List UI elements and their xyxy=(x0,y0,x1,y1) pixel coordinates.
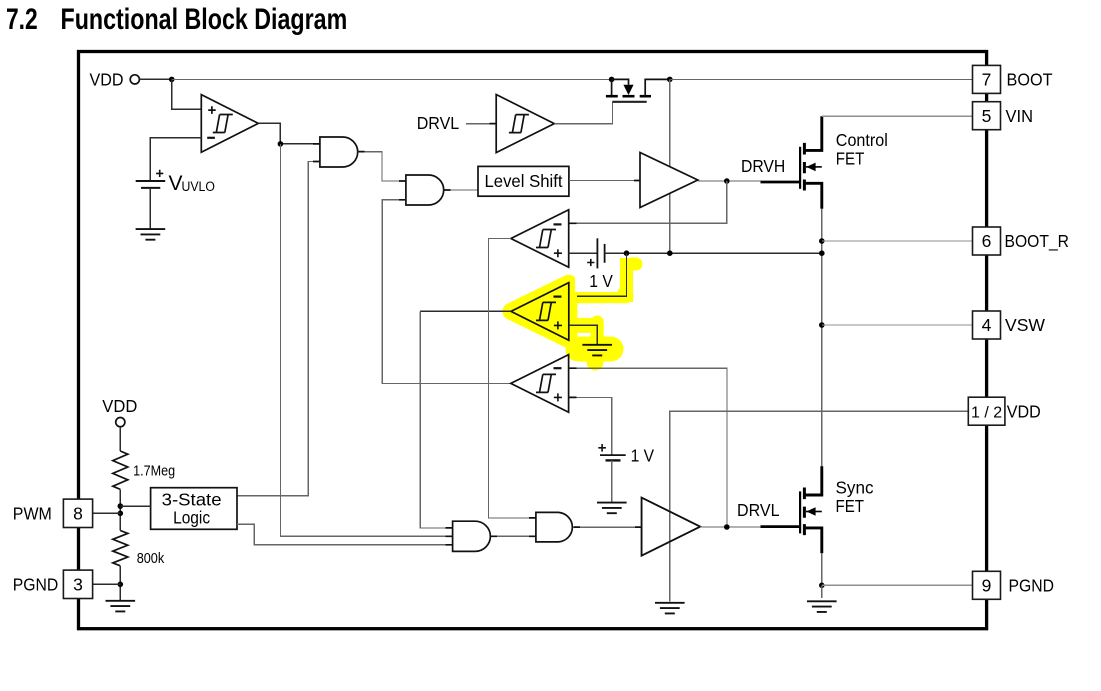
transistor Q3 sync FET xyxy=(761,466,822,553)
svg-text:PGND: PGND xyxy=(1009,576,1055,596)
node at 669.8 xyxy=(667,250,673,256)
wire battery B2 to ground xyxy=(611,460,613,502)
op-amp U1 UVLO comparator xyxy=(201,95,258,153)
wire sync FET source to PGND xyxy=(821,553,823,585)
svg-text:1.7Meg: 1.7Meg xyxy=(133,464,175,480)
wire AND U3 output to Level Shift xyxy=(444,189,478,191)
node VSW tap xyxy=(819,322,825,328)
svg-text:1 / 2: 1 / 2 xyxy=(971,404,1002,421)
svg-text:8: 8 xyxy=(73,503,83,523)
wire comparator U6 + input to 1V battery xyxy=(569,252,598,254)
ground below V_UVLO xyxy=(136,229,166,240)
svg-text:9: 9 xyxy=(982,575,992,595)
AND gate U5 (3-input) xyxy=(453,521,491,551)
svg-text:DRVL: DRVL xyxy=(737,500,780,520)
wire UVLO output down to AND U5 input 2 xyxy=(280,144,452,536)
wire VDD terminal to junction xyxy=(139,78,171,80)
node UVLO output branch xyxy=(278,141,284,147)
wire PWM pin to node xyxy=(93,512,121,514)
svg-text:BOOT: BOOT xyxy=(1007,70,1053,90)
svg-text:7.2: 7.2 xyxy=(6,3,38,36)
svg-text:FET: FET xyxy=(836,496,865,516)
3-State Logic block xyxy=(151,488,237,530)
wire PGND pin xyxy=(822,584,973,586)
node DRVL xyxy=(724,524,730,530)
wire VDD junction down to UVLO comparator + input xyxy=(172,79,202,109)
comparator U7 (highlighted) xyxy=(511,283,569,341)
wire VDD to resistor R1 xyxy=(119,427,121,451)
wire resistor R2 to PGND node xyxy=(119,566,121,601)
svg-text:1 V: 1 V xyxy=(631,446,655,466)
Level Shift block xyxy=(478,166,569,196)
wire DRVL driver output to sync FET gate xyxy=(700,526,760,528)
wire comparator U7 output to AND U5 input 1 xyxy=(420,310,511,312)
wire PGND pin 3 to node xyxy=(93,583,121,585)
pin 6 BOOT_R xyxy=(973,227,1001,255)
transistor Q1 bootstrap switch xyxy=(606,77,670,102)
node BOOT_R tap xyxy=(819,238,825,244)
svg-text:Functional Block Diagram: Functional Block Diagram xyxy=(61,3,348,36)
wire buffer U4 to bootstrap switch gate xyxy=(554,102,612,124)
svg-text:Logic: Logic xyxy=(173,507,210,527)
svg-text:VDD: VDD xyxy=(1007,401,1041,421)
buffer U4 DRVL hysteresis buffer xyxy=(496,95,554,153)
wire VSW rail xyxy=(821,209,823,467)
pin 1/2 VDD xyxy=(968,397,1005,425)
comparator U6 (BOOT sense) xyxy=(511,210,569,268)
wire BOOT rail to pin 7 xyxy=(670,78,973,80)
wire DRVH driver output to control FET gate xyxy=(698,180,761,182)
comparator U8 (DRVL sense) xyxy=(511,355,569,413)
wire 3-state output A up to AND U2 input 2 xyxy=(237,162,320,496)
wire UVLO output to AND U2 and down xyxy=(258,123,320,143)
node PGND tap xyxy=(819,583,825,589)
node 3-state input tap xyxy=(118,503,124,509)
svg-text:7: 7 xyxy=(982,70,992,90)
wire comparator U8 output up to AND U3 input 2 xyxy=(382,200,511,384)
wire comparator U8 - input to DRVL node xyxy=(569,368,727,527)
battery B1 1V xyxy=(596,238,598,268)
wire DRVH node down to comparator U6 - input xyxy=(577,181,727,223)
svg-text:3-State: 3-State xyxy=(162,489,222,509)
pin 9 PGND xyxy=(973,571,1001,599)
wire to 3-state logic input xyxy=(120,505,150,507)
svg-text:VIN: VIN xyxy=(1006,106,1034,126)
wire Level Shift to DRVH driver xyxy=(569,180,640,182)
ground below sync FET xyxy=(807,601,837,612)
resistor R2 800k xyxy=(113,531,128,566)
ground below resistor R2 xyxy=(106,601,136,612)
svg-text:Sync: Sync xyxy=(836,478,874,498)
pin 7 BOOT xyxy=(973,65,1001,93)
node BOOT rail junction xyxy=(667,77,673,83)
pin 5 VIN xyxy=(973,102,1001,130)
svg-text:V: V xyxy=(169,172,183,195)
battery V_UVLO xyxy=(136,180,166,182)
battery B2 1V xyxy=(600,454,626,456)
ground below DRVL driver xyxy=(655,603,685,614)
buffer U5 DRVH driver xyxy=(640,153,698,208)
chip outline box xyxy=(79,52,987,629)
white mask behind 1 V label of upper battery xyxy=(575,266,618,292)
wire sync FET source to ground xyxy=(821,585,823,598)
svg-text:3: 3 xyxy=(73,574,83,594)
resistor R1 1.7Meg xyxy=(113,451,128,489)
svg-text:1 V: 1 V xyxy=(589,271,613,291)
yellow highlighter over middle comparator xyxy=(511,258,636,362)
AND gate U6b (2-input) xyxy=(536,512,572,542)
wire battery to ground xyxy=(149,188,151,229)
redraw buffer over rail xyxy=(642,498,701,556)
wire comparator U8 + input to battery B2 xyxy=(569,397,612,455)
wire VSW pin xyxy=(822,324,973,326)
wire comparator U7 - input up to 1V node xyxy=(577,253,627,296)
node PWM pin tap xyxy=(118,511,124,517)
black port stubs on logic gates and comparators xyxy=(313,124,642,545)
svg-text:VDD: VDD xyxy=(90,70,124,90)
svg-text:Control: Control xyxy=(836,130,888,150)
wire VDD top rail to bootstrap switch xyxy=(172,78,612,80)
svg-text:5: 5 xyxy=(982,106,992,126)
wire battery B1 to VSW rail xyxy=(605,252,822,254)
wire VIN pin to control FET drain xyxy=(822,115,973,117)
wire AND U2 output to AND U3 input 1 xyxy=(358,152,406,181)
pin 4 VSW xyxy=(973,311,1001,339)
svg-text:VSW: VSW xyxy=(1005,315,1045,335)
svg-text:PWM: PWM xyxy=(13,503,52,523)
svg-text:DRVH: DRVH xyxy=(741,156,785,176)
wire BOOT_R pin xyxy=(822,240,973,242)
wire AND U6b output to DRVL driver xyxy=(574,526,642,528)
svg-text:Level Shift: Level Shift xyxy=(485,171,563,191)
wire BOOT rail down through DRVH driver to 1V node xyxy=(669,79,671,253)
node VDD junction xyxy=(169,77,175,83)
wire AND U5 output to AND U6b input 2 xyxy=(490,535,536,537)
wire resistor R1 to PWM node xyxy=(119,489,121,530)
wire comparator U7 + input to ground xyxy=(569,325,597,344)
svg-text:VDD: VDD xyxy=(102,396,137,416)
svg-text:6: 6 xyxy=(982,231,992,251)
wire 3-state output B to AND U5 input 3 xyxy=(237,524,453,545)
svg-text:800k: 800k xyxy=(137,551,165,567)
svg-text:PGND: PGND xyxy=(13,574,59,594)
svg-text:UVLO: UVLO xyxy=(182,179,215,194)
buffer U9 DRVL driver xyxy=(642,498,701,556)
ground below battery B2 xyxy=(597,503,627,514)
transistor Q2 control FET xyxy=(761,116,822,209)
AND gate U2 xyxy=(320,137,358,167)
ground below comparator U7 xyxy=(582,345,612,356)
svg-text:4: 4 xyxy=(982,315,992,335)
comparator U6 output down to AND U6b input 1 xyxy=(488,239,536,518)
svg-text:FET: FET xyxy=(836,149,865,169)
svg-text:BOOT_R: BOOT_R xyxy=(1005,231,1070,252)
node DRVH xyxy=(724,178,730,184)
node 1V battery tap xyxy=(819,250,825,256)
wire VDD pin rail down through DRVL driver to ground xyxy=(670,411,969,601)
node PGND tap left xyxy=(118,582,124,588)
svg-text:DRVL: DRVL xyxy=(417,113,460,133)
wire UVLO - input to V_UVLO battery xyxy=(150,138,201,181)
node at 626.5 xyxy=(624,250,630,256)
AND gate U3 xyxy=(406,175,444,205)
